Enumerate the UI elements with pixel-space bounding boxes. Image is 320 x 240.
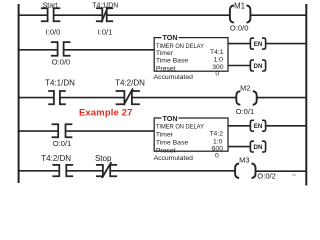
wire TON1 to DN coil [228, 65, 250, 67]
wire rung5 coil M3 to right rail [256, 170, 307, 172]
svg-text:M2: M2 [240, 84, 250, 93]
timer block TON T4:1 box [154, 38, 228, 72]
wire rung3 to coil M2 [132, 97, 237, 99]
svg-text:T4:1/DN: T4:1/DN [92, 2, 118, 9]
svg-text:EN: EN [254, 123, 263, 130]
svg-text:O:0/1: O:0/1 [236, 107, 255, 116]
svg-text:0: 0 [215, 152, 219, 159]
wire rung3 coil M2 to right rail [257, 97, 306, 99]
svg-text:O:0/2: O:0/2 [257, 172, 276, 181]
svg-text:T4:2: T4:2 [209, 130, 223, 137]
svg-text:Preset: Preset [156, 65, 176, 72]
timer2 title TON [162, 114, 179, 121]
wire rung3 between contacts [60, 97, 125, 99]
svg-text:Stop: Stop [95, 154, 112, 163]
contact O:0/1 XIC rung4 [52, 124, 73, 137]
coil EN enable bit timer1 [250, 38, 265, 49]
contact T4:2/DN XIO rung3 [116, 88, 140, 105]
svg-text:Time Base: Time Base [156, 58, 188, 65]
svg-text:0: 0 [215, 71, 219, 78]
svg-text:Timer: Timer [156, 50, 174, 57]
svg-text:Accumulated: Accumulated [154, 155, 194, 162]
watermark speck [292, 174, 296, 176]
svg-text:T4:1/DN: T4:1/DN [45, 79, 75, 88]
svg-text:TIMER ON DELAY: TIMER ON DELAY [156, 43, 204, 50]
svg-text:1:0: 1:0 [213, 57, 223, 64]
wire rung5 between contacts [66, 170, 103, 172]
wire TON2 to EN coil [228, 125, 250, 127]
svg-text:T4:2/DN: T4:2/DN [115, 79, 145, 88]
wire rung5 to coil M3 [110, 170, 235, 172]
svg-text:I:0/0: I:0/0 [46, 27, 61, 36]
contact Stop XIO rung5 [96, 162, 117, 178]
coil M1 OTE O:0/0 [230, 5, 251, 22]
svg-text:Timer: Timer [156, 132, 174, 139]
svg-text:Accumulated: Accumulated [154, 74, 194, 81]
svg-text:M3: M3 [239, 155, 249, 164]
coil M2 OTE O:0/1 [236, 91, 256, 105]
svg-text:T4:1: T4:1 [210, 49, 224, 56]
coil DN done bit timer2 [250, 141, 265, 152]
svg-text:M1: M1 [234, 2, 246, 11]
svg-text:TON: TON [162, 33, 177, 42]
coil DN done bit timer1 [250, 60, 265, 71]
left power rail [18, 4, 20, 183]
svg-text:Preset: Preset [156, 148, 176, 155]
svg-text:TON: TON [162, 114, 177, 123]
svg-text:T4:2/DN: T4:2/DN [41, 154, 71, 163]
svg-text:Time Base: Time Base [156, 139, 188, 146]
svg-text:O:0/0: O:0/0 [52, 57, 71, 66]
coil M3 OTE O:0/2 [235, 164, 255, 179]
coil EN enable bit timer2 [250, 120, 265, 131]
wire rung4 left rail to O:0/1 contact [18, 130, 58, 132]
wire rung1 to coil M1 [107, 14, 231, 16]
wire rung1 coil M1 to right rail [250, 14, 306, 16]
svg-text:DN: DN [254, 144, 263, 151]
svg-text:Start: Start [43, 2, 58, 9]
svg-text:TIMER ON DELAY: TIMER ON DELAY [156, 124, 204, 131]
contact T4:1/DN XIO I:0/1 [96, 7, 113, 23]
wire EN2 coil to right rail [266, 125, 306, 127]
wire rung1 left rail to Start contact [18, 14, 48, 16]
wire rung1 between Start and T4:1/DN [54, 14, 103, 16]
svg-text:I:0/1: I:0/1 [98, 27, 113, 36]
wire TON2 to DN coil [228, 146, 250, 148]
wire rung4 to timer block T4:2 [66, 130, 155, 132]
contact T4:1/DN XIC rung3 [48, 91, 66, 104]
svg-text:600: 600 [212, 145, 224, 152]
wire rung5 left rail to T4:2/DN contact [18, 170, 60, 172]
contact Start XIC I:0/0 [41, 8, 60, 21]
svg-text:Example 27: Example 27 [79, 106, 133, 117]
right power rail [305, 4, 307, 186]
wire TON1 to EN coil [228, 43, 250, 45]
svg-text:EN: EN [254, 41, 263, 48]
timer block TON T4:2 box [154, 118, 228, 151]
wire rung2 left rail to O:0/0 contact [18, 49, 58, 51]
svg-text:O:0/1: O:0/1 [53, 139, 72, 148]
contact O:0/0 seal-in XIC [51, 42, 71, 56]
contact T4:2/DN XIC rung5 [52, 165, 73, 176]
svg-text:DN: DN [254, 63, 263, 70]
timer1 title TON [162, 34, 179, 41]
svg-text:O:0/0: O:0/0 [230, 24, 249, 33]
wire EN coil to right rail [266, 43, 306, 45]
wire rung3 left rail to T4:1/DN contact [18, 97, 54, 99]
wire rung2 to timer block T4:1 [64, 49, 155, 51]
